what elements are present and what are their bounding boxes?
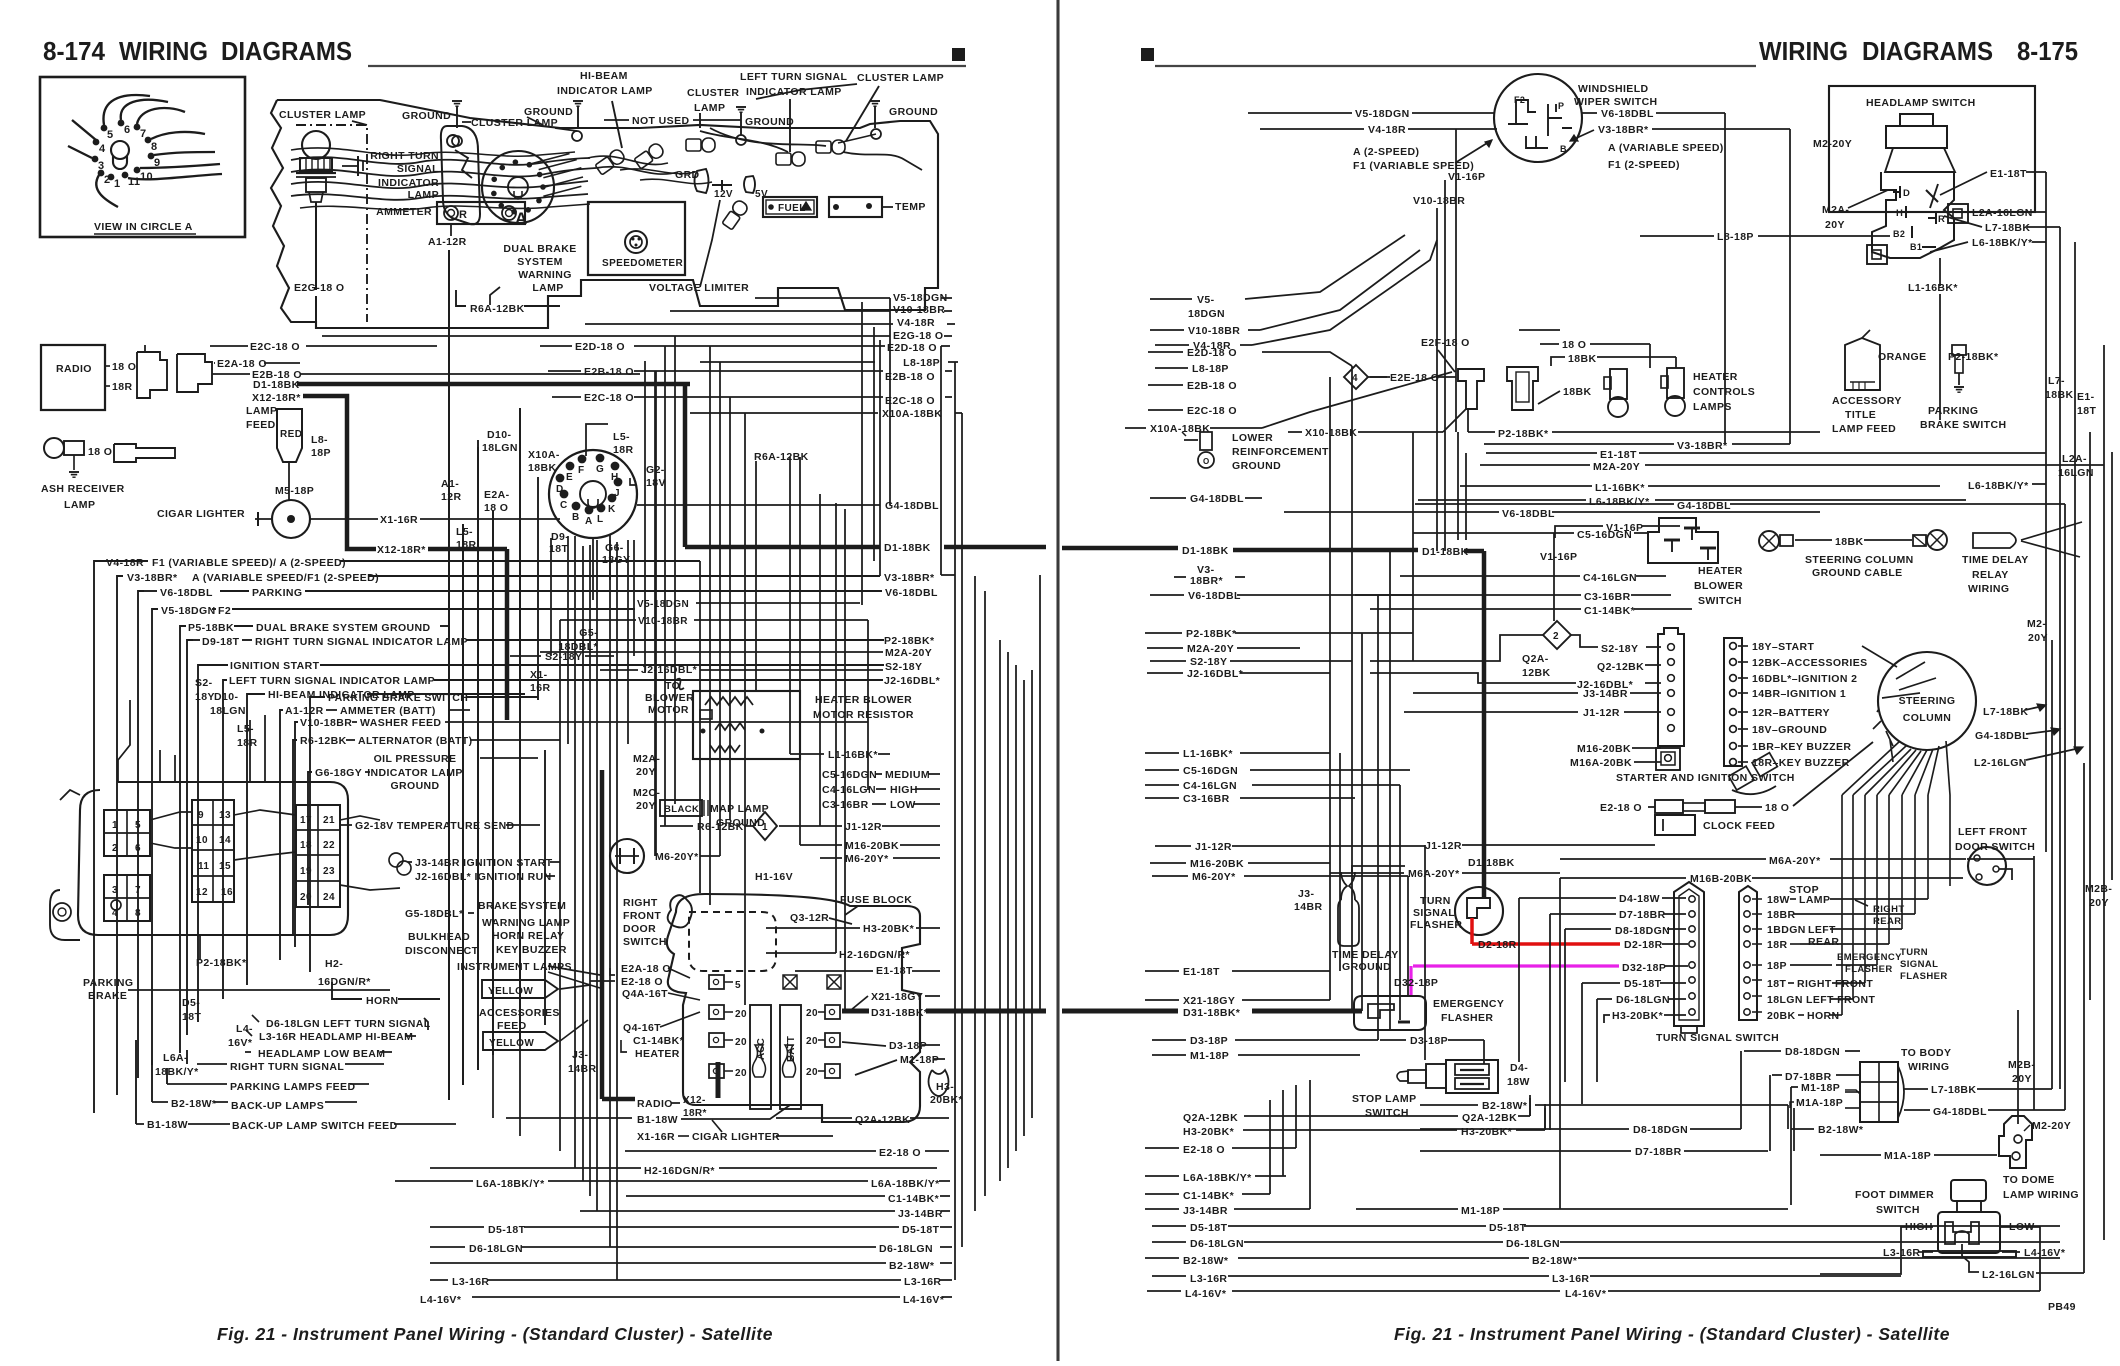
svg-text:C1-14BK*: C1-14BK* <box>1584 605 1636 617</box>
svg-text:15: 15 <box>219 861 231 872</box>
svg-text:X10A-18BK: X10A-18BK <box>882 408 942 420</box>
svg-text:12R: 12R <box>441 491 461 503</box>
svg-text:D6-18LGN: D6-18LGN <box>1190 1238 1244 1250</box>
svg-text:FRONT: FRONT <box>623 910 661 922</box>
svg-text:D5-18T: D5-18T <box>1190 1222 1228 1234</box>
svg-text:LEFT: LEFT <box>1808 924 1836 936</box>
svg-text:BACK-UP LAMPS: BACK-UP LAMPS <box>231 1100 324 1112</box>
svg-text:RIGHT: RIGHT <box>1873 904 1905 915</box>
svg-text:E2B-18 O: E2B-18 O <box>885 371 935 383</box>
svg-text:18W: 18W <box>1767 894 1790 906</box>
svg-text:P2-18BK*: P2-18BK* <box>196 957 247 969</box>
svg-text:1BR–KEY BUZZER: 1BR–KEY BUZZER <box>1752 741 1851 753</box>
svg-text:12R–BATTERY: 12R–BATTERY <box>1752 707 1830 719</box>
svg-text:BLOWER: BLOWER <box>645 692 694 704</box>
svg-text:L1-16BK*: L1-16BK* <box>1183 748 1233 760</box>
svg-text:GROUND: GROUND <box>1232 460 1281 472</box>
svg-text:TO: TO <box>665 680 680 692</box>
svg-text:D6-18LGN: D6-18LGN <box>1506 1238 1560 1250</box>
svg-text:G6-: G6- <box>605 542 624 554</box>
svg-text:LAMP FEED: LAMP FEED <box>1832 423 1896 435</box>
svg-text:REAR: REAR <box>1808 936 1839 948</box>
svg-text:12: 12 <box>196 887 208 898</box>
svg-text:RELAY: RELAY <box>1972 569 2009 581</box>
svg-text:WIRING: WIRING <box>1908 1061 1949 1073</box>
svg-text:5: 5 <box>107 129 114 141</box>
svg-text:18BR: 18BR <box>1767 909 1795 921</box>
svg-text:G4-18DBL: G4-18DBL <box>1677 500 1731 512</box>
svg-text:Q2A-12BK: Q2A-12BK <box>855 1114 910 1126</box>
svg-text:18DGN: 18DGN <box>1188 308 1225 320</box>
svg-text:18BK: 18BK <box>1835 536 1863 548</box>
svg-text:CLUSTER LAMP: CLUSTER LAMP <box>857 72 944 84</box>
svg-text:16: 16 <box>221 887 233 898</box>
svg-text:1: 1 <box>114 178 121 190</box>
svg-text:F1 (2-SPEED): F1 (2-SPEED) <box>1608 159 1680 171</box>
svg-text:4: 4 <box>1352 373 1358 384</box>
svg-text:14: 14 <box>219 835 231 846</box>
svg-text:E1-18T: E1-18T <box>1990 168 2027 180</box>
svg-text:B1-18W: B1-18W <box>147 1119 188 1131</box>
svg-text:M1-18P: M1-18P <box>1461 1205 1500 1217</box>
svg-text:7: 7 <box>135 885 141 896</box>
svg-text:8: 8 <box>151 141 158 153</box>
svg-text:J2-16DBL*: J2-16DBL* <box>1187 668 1244 680</box>
svg-text:G5-18DBL*: G5-18DBL* <box>405 908 464 920</box>
svg-text:L6A-: L6A- <box>163 1052 188 1064</box>
svg-text:SWITCH: SWITCH <box>623 936 667 948</box>
svg-text:WIRING: WIRING <box>1759 36 1848 66</box>
svg-text:18R: 18R <box>1767 939 1787 951</box>
svg-text:SWITCH: SWITCH <box>1876 1204 1920 1216</box>
svg-text:MEDIUM: MEDIUM <box>885 769 930 781</box>
svg-text:D5-18T: D5-18T <box>1624 978 1662 990</box>
svg-text:V4-18R: V4-18R <box>897 317 935 329</box>
svg-text:X10-18BK: X10-18BK <box>1305 427 1357 439</box>
svg-text:HEATER: HEATER <box>1693 371 1738 383</box>
svg-text:LEFT FRONT: LEFT FRONT <box>1958 826 2028 838</box>
svg-text:V10-18BR: V10-18BR <box>1413 195 1465 207</box>
svg-text:18BK: 18BK <box>528 462 556 474</box>
svg-text:H1-16V: H1-16V <box>755 871 793 883</box>
svg-text:9: 9 <box>198 810 204 821</box>
svg-text:BRAKE SWITCH: BRAKE SWITCH <box>1920 419 2006 431</box>
svg-text:L1-16BK*: L1-16BK* <box>1908 282 1958 294</box>
svg-text:M6-20Y*: M6-20Y* <box>655 851 699 863</box>
svg-text:V3-18BR*: V3-18BR* <box>1598 124 1649 136</box>
svg-text:A: A <box>515 209 528 228</box>
svg-text:16DBL*–IGNITION 2: 16DBL*–IGNITION 2 <box>1752 673 1857 685</box>
svg-text:18BK: 18BK <box>1568 353 1596 365</box>
svg-text:L6A-18BK/Y*: L6A-18BK/Y* <box>476 1178 545 1190</box>
svg-text:A1-12R: A1-12R <box>428 236 467 248</box>
svg-text:G4-18DBL: G4-18DBL <box>885 500 939 512</box>
svg-text:X21-18GY: X21-18GY <box>871 991 923 1003</box>
svg-text:FLASHER: FLASHER <box>1441 1012 1493 1024</box>
svg-text:Q3-12R: Q3-12R <box>790 912 829 924</box>
svg-text:V3-18BR*: V3-18BR* <box>1677 440 1728 452</box>
svg-text:RIGHT TURN SIGNAL INDICATOR: RIGHT TURN SIGNAL INDICATOR LAMP <box>255 636 468 648</box>
svg-text:D8-18DGN: D8-18DGN <box>1633 1124 1688 1136</box>
svg-text:L8-18P: L8-18P <box>1717 231 1754 243</box>
svg-text:D: D <box>1903 188 1910 199</box>
svg-text:D10-: D10- <box>487 429 511 441</box>
svg-text:18LGN: 18LGN <box>482 442 518 454</box>
svg-text:20: 20 <box>735 1068 747 1079</box>
svg-text:V5-18DGN: V5-18DGN <box>161 605 216 617</box>
svg-text:L3-16R: L3-16R <box>452 1276 489 1288</box>
svg-text:A1-12R: A1-12R <box>285 705 324 717</box>
svg-text:20BK*: 20BK* <box>930 1094 963 1106</box>
svg-text:BACK-UP LAMP SWITCH FEED: BACK-UP LAMP SWITCH FEED <box>232 1120 398 1132</box>
svg-text:TURN: TURN <box>1900 947 1928 958</box>
svg-text:V3-18BR*: V3-18BR* <box>127 572 178 584</box>
svg-text:18P: 18P <box>311 447 331 459</box>
svg-text:18T: 18T <box>2077 405 2096 417</box>
svg-text:J1-12R: J1-12R <box>1425 840 1462 852</box>
svg-text:F1 (VARIABLE SPEED)/ A (2-S: F1 (VARIABLE SPEED)/ A (2-SPEED) <box>152 557 346 569</box>
svg-text:WIRING: WIRING <box>1968 583 2009 595</box>
svg-text:BULKHEAD: BULKHEAD <box>408 931 470 943</box>
svg-text:LAMPS: LAMPS <box>1693 401 1732 413</box>
svg-text:M6A-20Y*: M6A-20Y* <box>1769 855 1821 867</box>
svg-text:REINFORCEMENT: REINFORCEMENT <box>1232 446 1329 458</box>
svg-text:C: C <box>560 500 568 511</box>
svg-text:ALTERNATOR (BATT): ALTERNATOR (BATT) <box>358 735 473 747</box>
svg-text:M2-20Y: M2-20Y <box>2032 1120 2071 1132</box>
svg-text:16DGN/R*: 16DGN/R* <box>318 976 371 988</box>
svg-text:M16A-20BK: M16A-20BK <box>1570 757 1632 769</box>
svg-text:D1-18BK: D1-18BK <box>1182 545 1229 557</box>
svg-text:L6-18BK/Y*: L6-18BK/Y* <box>1972 237 2033 249</box>
svg-text:DOOR SWITCH: DOOR SWITCH <box>1955 841 2035 853</box>
svg-text:H2-: H2- <box>325 958 343 970</box>
svg-text:18P: 18P <box>1767 960 1787 972</box>
svg-text:16V*: 16V* <box>228 1037 253 1049</box>
svg-text:HIGH: HIGH <box>890 784 918 796</box>
svg-text:L3-16R: L3-16R <box>904 1276 941 1288</box>
svg-text:C1-14BK*: C1-14BK* <box>633 1035 685 1047</box>
svg-text:AMMETER (BATT): AMMETER (BATT) <box>340 705 436 717</box>
svg-text:FLASHER: FLASHER <box>1900 971 1948 982</box>
svg-text:B2-18W*: B2-18W* <box>1482 1100 1528 1112</box>
svg-text:20BK: 20BK <box>1767 1010 1795 1022</box>
svg-text:EMERGENCY: EMERGENCY <box>1433 998 1504 1010</box>
svg-text:L6A-18BK/Y*: L6A-18BK/Y* <box>871 1178 940 1190</box>
svg-text:Fig. 21 - Instrument Panel Wir: Fig. 21 - Instrument Panel Wiring - (Sta… <box>217 1324 773 1344</box>
svg-text:GROUND: GROUND <box>1342 961 1391 973</box>
svg-text:RADIO: RADIO <box>56 363 92 375</box>
svg-text:4: 4 <box>99 143 106 155</box>
svg-text:L7-: L7- <box>2048 375 2065 387</box>
svg-text:C1-14BK*: C1-14BK* <box>1183 1190 1235 1202</box>
svg-text:Q2A-12BK: Q2A-12BK <box>1183 1112 1238 1124</box>
svg-text:D3-18P: D3-18P <box>1410 1035 1448 1047</box>
svg-text:V1-16P: V1-16P <box>1540 551 1577 563</box>
svg-text:TO BODY: TO BODY <box>1901 1047 1951 1059</box>
svg-text:L5-: L5- <box>613 431 630 443</box>
svg-text:E2B-18 O: E2B-18 O <box>584 366 634 378</box>
svg-text:KEY BUZZER: KEY BUZZER <box>496 944 567 956</box>
svg-text:V10-18BR: V10-18BR <box>893 304 945 316</box>
svg-text:L8-: L8- <box>311 434 328 446</box>
svg-text:TEMP: TEMP <box>895 201 926 213</box>
svg-text:ORANGE: ORANGE <box>1878 351 1927 363</box>
svg-text:J2-16DBL* IGNITION RUN: J2-16DBL* IGNITION RUN <box>415 871 552 883</box>
svg-text:E2A-: E2A- <box>484 489 510 501</box>
svg-text:C5-16DGN: C5-16DGN <box>1577 529 1632 541</box>
svg-text:E2C-18 O: E2C-18 O <box>250 341 300 353</box>
svg-text:5V: 5V <box>755 189 768 200</box>
svg-text:D1-18BK: D1-18BK <box>1468 857 1515 869</box>
svg-text:FLASHER: FLASHER <box>1410 919 1462 931</box>
svg-text:S2-18Y: S2-18Y <box>1601 643 1638 655</box>
svg-text:SIGNAL: SIGNAL <box>1413 907 1455 919</box>
svg-text:M2-: M2- <box>2027 618 2046 630</box>
svg-text:CONTROLS: CONTROLS <box>1693 386 1755 398</box>
svg-text:G4-18DBL: G4-18DBL <box>1933 1106 1987 1118</box>
svg-text:G5-: G5- <box>579 627 598 639</box>
svg-text:X10A-: X10A- <box>528 449 560 461</box>
svg-text:L6A-18BK/Y*: L6A-18BK/Y* <box>1183 1172 1252 1184</box>
svg-text:MAP LAMP: MAP LAMP <box>710 803 769 815</box>
svg-text:J1-12R: J1-12R <box>845 821 882 833</box>
svg-text:FEED: FEED <box>246 419 276 431</box>
svg-text:B: B <box>572 512 580 523</box>
svg-text:A: A <box>585 516 593 527</box>
svg-text:Q2A-: Q2A- <box>1522 653 1549 665</box>
svg-text:HEADLAMP LOW BEAM: HEADLAMP LOW BEAM <box>258 1048 385 1060</box>
svg-text:18 O: 18 O <box>112 361 136 373</box>
svg-text:E1-18T: E1-18T <box>876 965 913 977</box>
svg-text:P5-18BK: P5-18BK <box>188 622 234 634</box>
svg-text:18R: 18R <box>237 737 257 749</box>
svg-text:8-175: 8-175 <box>2017 36 2078 66</box>
svg-text:8: 8 <box>135 908 141 919</box>
svg-text:18 O: 18 O <box>88 446 112 458</box>
svg-text:22: 22 <box>323 840 335 851</box>
svg-text:J3-14BR IGNITION START: J3-14BR IGNITION START <box>415 857 553 869</box>
svg-text:PARKING: PARKING <box>1928 405 1978 417</box>
svg-text:YELLOW: YELLOW <box>488 986 533 997</box>
svg-text:21: 21 <box>323 815 335 826</box>
svg-text:1: 1 <box>112 820 118 831</box>
svg-text:P2-18BK*: P2-18BK* <box>884 635 935 647</box>
svg-text:E2E-18 O: E2E-18 O <box>1390 372 1439 384</box>
svg-text:LEFT TURN SIGNAL INDICATOR: LEFT TURN SIGNAL INDICATOR LAMP <box>229 675 435 687</box>
svg-text:X12-: X12- <box>683 1095 706 1106</box>
svg-text:18Y: 18Y <box>195 691 215 703</box>
svg-text:B2-18W*: B2-18W* <box>1183 1255 1229 1267</box>
svg-text:1: 1 <box>762 822 768 833</box>
svg-text:RIGHT FRONT: RIGHT FRONT <box>1797 978 1873 990</box>
svg-text:18R: 18R <box>456 539 476 551</box>
svg-text:E2G-18 O: E2G-18 O <box>893 330 943 342</box>
svg-text:V3-18BR*: V3-18BR* <box>884 572 935 584</box>
svg-text:IGNITION START: IGNITION START <box>230 660 320 672</box>
svg-text:HI-BEAM: HI-BEAM <box>580 70 628 82</box>
svg-text:DISCONNECT: DISCONNECT <box>405 945 479 957</box>
svg-text:G: G <box>596 464 604 475</box>
svg-text:18R*: 18R* <box>683 1108 707 1119</box>
svg-text:PARKING: PARKING <box>252 587 302 599</box>
svg-text:D31-18BK*: D31-18BK* <box>871 1007 929 1019</box>
svg-text:X1-16R: X1-16R <box>637 1131 675 1143</box>
svg-text:O: O <box>1203 457 1210 466</box>
svg-text:L4-16V*: L4-16V* <box>1565 1288 1607 1300</box>
svg-text:M1-18P: M1-18P <box>1801 1082 1840 1094</box>
svg-text:18R: 18R <box>112 381 132 393</box>
svg-text:REAR: REAR <box>1873 916 1902 927</box>
svg-text:13: 13 <box>219 810 231 821</box>
svg-text:H2-16DGN/R*: H2-16DGN/R* <box>644 1165 715 1177</box>
svg-text:HORN: HORN <box>1807 1010 1840 1022</box>
svg-text:A (VARIABLE SPEED): A (VARIABLE SPEED) <box>1608 142 1724 154</box>
svg-text:18T: 18T <box>1767 978 1786 990</box>
svg-text:LAMP: LAMP <box>1799 894 1830 906</box>
svg-text:SYSTEM: SYSTEM <box>517 256 563 268</box>
svg-text:D31-18BK*: D31-18BK* <box>1183 1007 1241 1019</box>
svg-text:TURN SIGNAL SWITCH: TURN SIGNAL SWITCH <box>1656 1032 1779 1044</box>
svg-text:A (VARIABLE SPEED/F1 (2-SPE: A (VARIABLE SPEED/F1 (2-SPEED) <box>192 572 379 584</box>
svg-text:H3-: H3- <box>936 1081 954 1093</box>
svg-text:LAMP: LAMP <box>64 499 95 511</box>
svg-text:DIAGRAMS: DIAGRAMS <box>1862 36 1993 66</box>
svg-text:C4-16LGN: C4-16LGN <box>1183 780 1237 792</box>
svg-text:J3-14BR: J3-14BR <box>1583 688 1628 700</box>
svg-text:E2C-18 O: E2C-18 O <box>885 395 935 407</box>
svg-text:L3-16R: L3-16R <box>1552 1273 1589 1285</box>
svg-text:E2D-18 O: E2D-18 O <box>1187 347 1237 359</box>
svg-text:L6-18BK/Y*: L6-18BK/Y* <box>1968 480 2029 492</box>
svg-text:PB49: PB49 <box>2048 1301 2076 1313</box>
svg-text:LOW: LOW <box>890 799 916 811</box>
svg-text:DIAGRAMS: DIAGRAMS <box>221 36 352 66</box>
svg-text:H: H <box>1896 208 1903 219</box>
svg-text:LAMP WIRING: LAMP WIRING <box>2003 1189 2079 1201</box>
svg-text:M16-20BK: M16-20BK <box>1577 743 1631 755</box>
svg-text:L1-16BK*: L1-16BK* <box>1595 482 1645 494</box>
svg-text:C5-16DGN: C5-16DGN <box>1183 765 1238 777</box>
svg-text:STEERING COLUMN: STEERING COLUMN <box>1805 554 1914 566</box>
svg-text:20: 20 <box>806 1008 818 1019</box>
svg-text:E2D-18 O: E2D-18 O <box>575 341 625 353</box>
svg-text:H3-20BK*: H3-20BK* <box>1612 1010 1664 1022</box>
svg-text:ASH RECEIVER: ASH RECEIVER <box>41 483 125 495</box>
svg-text:L4-16V*: L4-16V* <box>420 1294 462 1306</box>
svg-text:G2-18V TEMPERATURE SEND: G2-18V TEMPERATURE SEND <box>355 820 515 832</box>
svg-text:LEFT FRONT: LEFT FRONT <box>1806 994 1876 1006</box>
svg-text:D5-: D5- <box>182 997 200 1009</box>
svg-text:V6-18DBL: V6-18DBL <box>1502 508 1555 520</box>
svg-text:Q4-16T: Q4-16T <box>623 1022 661 1034</box>
svg-text:CIGAR LIGHTER: CIGAR LIGHTER <box>692 1131 780 1143</box>
svg-text:CLUSTER: CLUSTER <box>687 87 739 99</box>
svg-text:DOOR: DOOR <box>623 923 656 935</box>
svg-text:5: 5 <box>735 980 741 991</box>
svg-text:E2B-18 O: E2B-18 O <box>1187 380 1237 392</box>
svg-text:M1-18P: M1-18P <box>1190 1050 1229 1062</box>
svg-text:M2A-20Y: M2A-20Y <box>1593 461 1640 473</box>
svg-text:STARTER AND IGNITION SWITCH: STARTER AND IGNITION SWITCH <box>1616 772 1795 784</box>
svg-text:D8-18DGN: D8-18DGN <box>1615 925 1670 937</box>
svg-text:11: 11 <box>198 861 209 872</box>
svg-text:X12-18R*: X12-18R* <box>377 544 426 556</box>
svg-text:L4-16V*: L4-16V* <box>1185 1288 1227 1300</box>
svg-text:Q2-12BK: Q2-12BK <box>1597 661 1644 673</box>
svg-text:B: B <box>1560 144 1567 154</box>
svg-text:V4-18R: V4-18R <box>1368 124 1406 136</box>
svg-text:M2A-20Y: M2A-20Y <box>1187 643 1234 655</box>
svg-text:L4-16V*: L4-16V* <box>2024 1247 2066 1259</box>
svg-text:18BK: 18BK <box>1563 386 1591 398</box>
svg-text:F2: F2 <box>1514 95 1525 105</box>
svg-text:D8-18DGN: D8-18DGN <box>1785 1046 1840 1058</box>
svg-text:L2-16LGN: L2-16LGN <box>1974 757 2027 769</box>
svg-text:C3-16BR: C3-16BR <box>1183 793 1230 805</box>
svg-text:M2A-: M2A- <box>1822 204 1849 216</box>
svg-text:WASHER FEED: WASHER FEED <box>360 717 441 729</box>
svg-text:V4-18R: V4-18R <box>106 557 144 569</box>
svg-text:V10-18BR: V10-18BR <box>1188 325 1240 337</box>
svg-text:L3-16R: L3-16R <box>1190 1273 1227 1285</box>
svg-text:18LGN: 18LGN <box>210 705 246 717</box>
svg-text:20Y: 20Y <box>2012 1073 2032 1085</box>
svg-text:18R–KEY BUZZER: 18R–KEY BUZZER <box>1752 757 1850 769</box>
svg-text:16LGN: 16LGN <box>2058 467 2094 479</box>
svg-text:M6A-20Y*: M6A-20Y* <box>1408 868 1460 880</box>
svg-text:SWITCH: SWITCH <box>1698 595 1742 607</box>
svg-text:GROUND: GROUND <box>390 780 439 792</box>
svg-text:E2A-18 O: E2A-18 O <box>621 963 671 975</box>
svg-text:MOTOR RESISTOR: MOTOR RESISTOR <box>813 709 914 721</box>
svg-text:E1-18T: E1-18T <box>1600 449 1637 461</box>
svg-text:D2-18R: D2-18R <box>1478 939 1517 951</box>
svg-text:X21-18GY: X21-18GY <box>1183 995 1235 1007</box>
svg-text:18LGN: 18LGN <box>1767 994 1803 1006</box>
svg-text:X10A-18BK: X10A-18BK <box>1150 423 1210 435</box>
svg-text:D9-: D9- <box>551 531 569 543</box>
svg-text:1BDGN: 1BDGN <box>1767 924 1806 936</box>
svg-text:M5-18P: M5-18P <box>275 485 314 497</box>
svg-text:M16B-20BK: M16B-20BK <box>1690 873 1752 885</box>
svg-text:14BR: 14BR <box>1294 901 1322 913</box>
svg-text:YELLOW: YELLOW <box>489 1038 534 1049</box>
svg-text:V10-18BR: V10-18BR <box>300 717 352 729</box>
svg-text:DUAL BRAKE SYSTEM GROUND: DUAL BRAKE SYSTEM GROUND <box>256 622 431 634</box>
svg-text:18 O: 18 O <box>1562 339 1586 351</box>
svg-text:6: 6 <box>135 843 141 854</box>
svg-text:J2-16DBL*: J2-16DBL* <box>641 664 698 676</box>
svg-text:18V–GROUND: 18V–GROUND <box>1752 724 1827 736</box>
svg-text:BRAKE SYSTEM: BRAKE SYSTEM <box>478 900 566 912</box>
svg-text:STOP LAMP: STOP LAMP <box>1352 1093 1416 1105</box>
svg-text:L5-: L5- <box>456 526 473 538</box>
svg-text:VOLTAGE LIMITER: VOLTAGE LIMITER <box>649 282 749 294</box>
svg-text:10: 10 <box>196 835 208 846</box>
svg-text:E1-18T: E1-18T <box>1183 966 1220 978</box>
svg-text:DUAL BRAKE: DUAL BRAKE <box>503 243 576 255</box>
svg-text:M16-20BK: M16-20BK <box>845 840 899 852</box>
svg-text:12BK: 12BK <box>1522 667 1550 679</box>
svg-text:RIGHT TURN SIGNAL: RIGHT TURN SIGNAL <box>230 1061 344 1073</box>
svg-text:18Y–START: 18Y–START <box>1752 641 1815 653</box>
svg-text:L8-18P: L8-18P <box>1192 363 1229 375</box>
svg-text:8-174: 8-174 <box>43 36 106 66</box>
svg-text:E2G-18 O: E2G-18 O <box>294 282 344 294</box>
svg-text:V5-18DGN: V5-18DGN <box>1355 108 1410 120</box>
svg-text:E2-18 O: E2-18 O <box>879 1147 921 1159</box>
